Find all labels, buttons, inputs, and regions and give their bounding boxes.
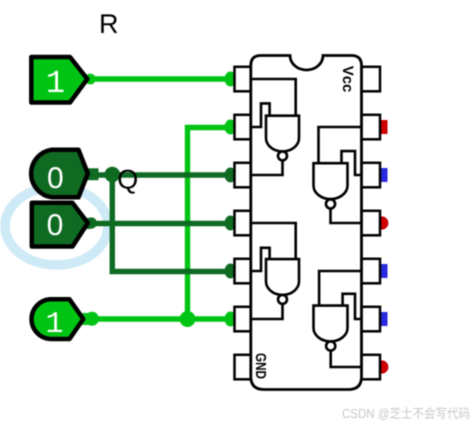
wire end cap at pin 6: [225, 312, 237, 327]
NAND gate U1B body: [314, 163, 348, 199]
svg-text:0: 0: [47, 209, 64, 242]
wire end cap at pin 4: [225, 216, 237, 231]
wire end cap at pin 2: [225, 120, 237, 135]
pin 2 U1: [235, 115, 252, 140]
svg-text:R: R: [99, 9, 119, 39]
pin 8 U1: [361, 355, 380, 380]
internal wire pin 1 to U1A input B: [251, 79, 296, 116]
internal wire U1C output to pin 6: [251, 304, 283, 319]
junction node Q feedback: [105, 167, 121, 183]
pin 3 U1: [235, 163, 252, 188]
IC U1 7400 DIP body with notch: [251, 56, 362, 390]
internal wire U1B output to pin 11: [331, 209, 362, 224]
junction node NQ feedback: [180, 311, 196, 327]
pin 11 U1: [361, 211, 380, 236]
wire end cap at pin 3: [225, 168, 237, 183]
NAND gate U1D bubble: [326, 341, 335, 350]
svg-text:CSDN @芝士不会写代码: CSDN @芝士不会写代码: [342, 406, 470, 421]
internal wire pin 13 to U1B input A: [319, 127, 362, 163]
internal wire pin 10 to U1D input A: [319, 271, 361, 306]
indicator pin 11 red round: [375, 216, 388, 229]
svg-text:0: 0: [47, 162, 64, 195]
indicator pin 8 red round: [375, 360, 388, 373]
internal wire U1A output to pin 3: [251, 160, 283, 175]
pin 7 GND U1: [235, 355, 252, 380]
wire NQ output to pin 6 (high, bright green): [90, 316, 236, 321]
internal wire pin 9 to U1D input B: [343, 294, 361, 319]
svg-text:1: 1: [46, 65, 65, 102]
indicator pin 13 red: [381, 120, 388, 134]
selection highlight ellipse around Q and S: [5, 187, 108, 265]
pin 13 U1: [361, 115, 380, 140]
wire end cap at pin 1: [225, 72, 237, 87]
indicator pin 12 blue: [381, 168, 388, 182]
pin 4 U1: [235, 211, 252, 236]
output probe NQ value 1: [32, 299, 99, 342]
pin 6 U1: [235, 307, 252, 332]
NAND gate U1A bubble: [278, 151, 287, 160]
wire R to pin 1 (high, bright green): [92, 76, 236, 81]
input pin S value 0: [32, 203, 97, 247]
input pin R value 1: [31, 57, 95, 103]
pin 9 U1: [361, 307, 380, 332]
wire end cap at pin 5: [225, 264, 237, 279]
svg-text:1: 1: [45, 308, 63, 342]
indicator pin 10 blue: [381, 264, 388, 278]
pin 5 U1: [235, 259, 252, 284]
wire S input to pin 4 (low, dark green): [90, 221, 236, 226]
svg-text:Q: Q: [117, 165, 138, 195]
wire Q output to pin 3 (low, dark green): [95, 172, 236, 177]
svg-text:GND: GND: [252, 353, 268, 379]
internal wire pin 12 to U1B input B: [342, 151, 362, 175]
internal wire pin 4 to U1C input B: [251, 223, 296, 259]
NAND gate U1B bubble: [326, 199, 335, 208]
NAND gate U1D body: [314, 306, 348, 342]
internal wire U1D output to pin 8: [331, 351, 361, 367]
output probe Q value 0: [31, 150, 98, 198]
indicator pin 9 blue: [381, 312, 388, 326]
pin 1 U1: [235, 67, 252, 92]
internal wire pin 2 to U1A input A: [251, 103, 270, 127]
wire Q feedback to pin 5 (low, dark green): [112, 175, 236, 272]
NAND gate U1A body: [266, 116, 299, 152]
internal wire pin 5 to U1C input A: [251, 248, 270, 271]
pin 10 U1: [361, 259, 380, 284]
svg-text:Vcc: Vcc: [339, 66, 356, 93]
NAND gate U1C bubble: [278, 295, 287, 304]
pin 14 Vcc U1: [361, 67, 380, 92]
wire NQ feedback to pin 2 (high, bright green): [188, 128, 237, 320]
NAND gate U1C body: [266, 259, 299, 295]
pin 12 U1: [361, 163, 380, 188]
